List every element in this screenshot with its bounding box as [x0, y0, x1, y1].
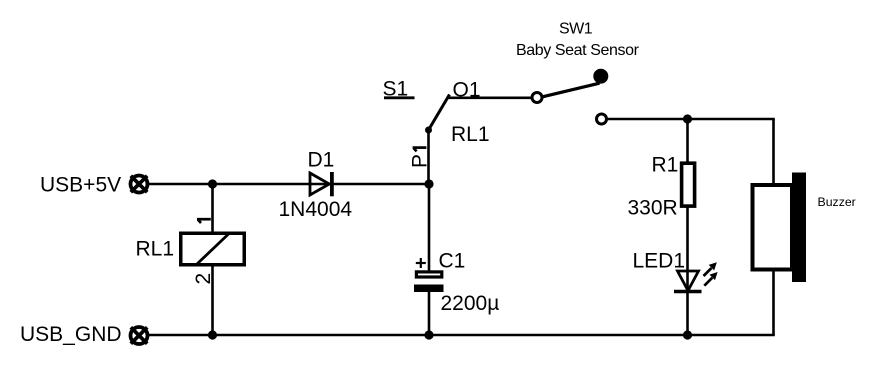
wire bottom GND horizontal	[148, 334, 775, 337]
svg-text:Baby Seat Sensor: Baby Seat Sensor	[516, 42, 640, 59]
terminal USB+5V pad	[131, 176, 148, 193]
wire top from S1 to SW1	[447, 97, 532, 100]
switch SW1 left contact	[532, 93, 542, 103]
wire relay coil vertical top	[211, 184, 214, 233]
svg-text:USB+5V: USB+5V	[40, 174, 121, 197]
junction node P1 top	[424, 179, 433, 188]
wire LED1 to GND vertical	[686, 292, 689, 335]
wire right vertical to buzzer top	[772, 119, 775, 185]
svg-text:Buzzer: Buzzer	[818, 195, 856, 209]
wire capacitor vertical bottom	[428, 291, 431, 335]
wire from SW1 right contact	[608, 118, 775, 121]
wire relay coil vertical bottom	[211, 265, 214, 335]
svg-text:330R: 330R	[628, 197, 678, 220]
svg-text:P: P	[409, 154, 432, 168]
svg-text:LED1: LED1	[633, 250, 686, 273]
svg-text:USB_GND: USB_GND	[20, 323, 122, 346]
svg-text:D1: D1	[308, 149, 335, 172]
buzzer body	[753, 185, 793, 270]
capacitor C1 positive plate	[416, 272, 441, 277]
switch S1 pivot node	[425, 127, 432, 134]
switch S1 lever	[429, 95, 450, 131]
pin P1	[409, 148, 432, 168]
switch SW1 lever	[543, 83, 600, 97]
wire R1 vertical top	[686, 119, 689, 163]
LED1 arrow lower	[704, 272, 717, 286]
pin 1 relay	[197, 219, 211, 223]
wire capacitor vertical top	[428, 184, 431, 273]
junction capacitor bottom	[424, 330, 433, 339]
svg-text:O1: O1	[453, 79, 481, 102]
junction R1 top	[683, 114, 692, 123]
relay RL1 coil	[181, 233, 245, 265]
capacitor C1 negative plate	[414, 285, 444, 293]
wire switch S1 vertical	[427, 130, 430, 184]
buzzer plate	[792, 173, 806, 283]
svg-text:RL1: RL1	[136, 238, 175, 261]
svg-text:C1: C1	[439, 250, 466, 273]
svg-text:R1: R1	[652, 154, 679, 177]
svg-text:2: 2	[192, 273, 215, 285]
svg-text:SW1: SW1	[559, 20, 593, 37]
svg-text:2200µ: 2200µ	[441, 292, 500, 315]
terminal USB_GND pad	[131, 327, 148, 344]
junction relay coil bottom	[208, 330, 217, 339]
svg-text:RL1: RL1	[451, 123, 490, 146]
svg-text:1N4004: 1N4004	[279, 198, 353, 221]
diode D1	[310, 172, 332, 196]
switch SW1 right contact	[597, 114, 607, 124]
wire buzzer bottom to GND	[772, 270, 775, 335]
LED1 cathode bar	[674, 290, 702, 294]
LED1 arrow upper	[704, 262, 717, 276]
switch SW1 ball	[593, 69, 608, 84]
wire main +5V horizontal	[148, 183, 429, 186]
net stub under S1	[384, 96, 415, 99]
plus sign C1	[416, 258, 426, 268]
junction relay coil top	[208, 179, 217, 188]
LED1 diode triangle	[678, 271, 699, 291]
resistor R1	[682, 163, 695, 206]
junction LED1 bottom	[683, 330, 692, 339]
wire R1 to LED1 vertical	[686, 207, 689, 292]
